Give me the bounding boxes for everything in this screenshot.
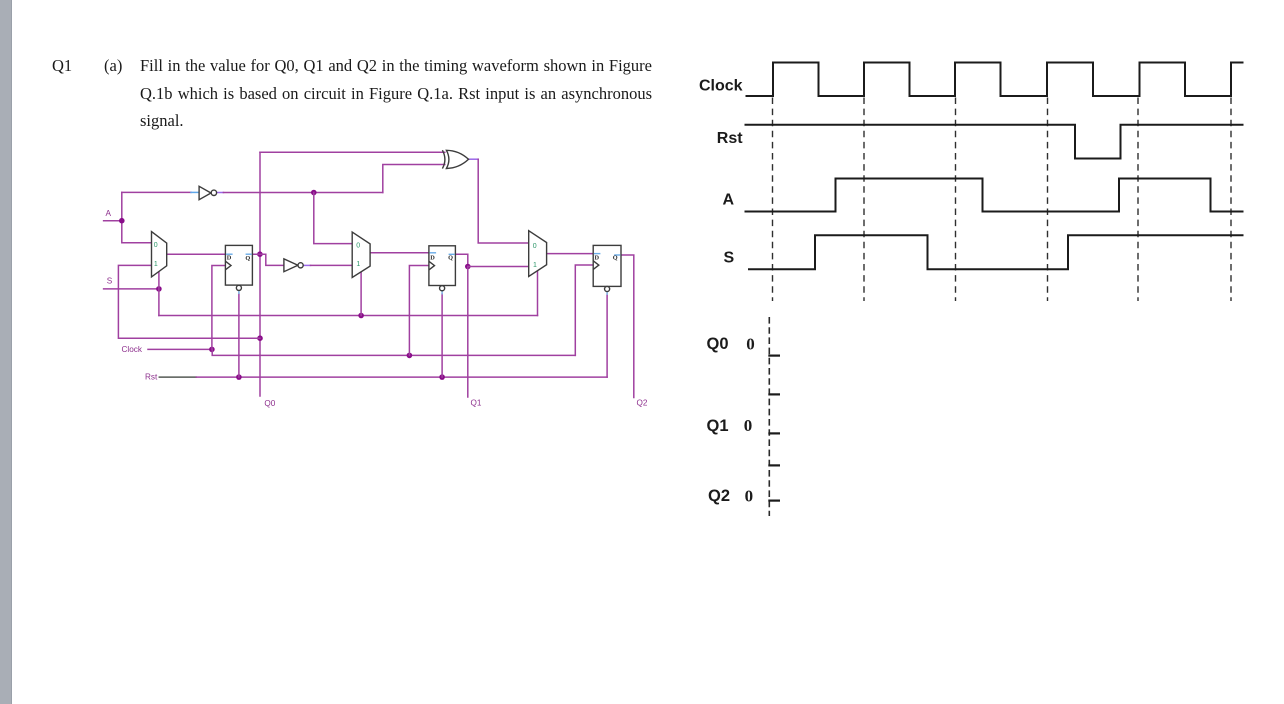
- svg-text:Clock: Clock: [699, 77, 743, 94]
- wire: Rst riser to DFF3 R: [606, 294, 608, 377]
- wire: input S stub: [104, 288, 159, 290]
- svg-text:D: D: [227, 255, 232, 262]
- svg-text:Q: Q: [448, 255, 453, 262]
- wire: XOR output down to mux3 input0: [478, 159, 529, 243]
- wire: blue highlighted segment at U4 input: [191, 191, 199, 193]
- wire: blue tick below DFF2 reset bubble: [441, 291, 443, 294]
- wire: DFF1 Q to inverter U5: [252, 254, 284, 265]
- wire: mux3 output to DFF3 D: [547, 253, 594, 255]
- svg-text:Q2: Q2: [637, 399, 648, 408]
- svg-text:0: 0: [154, 242, 158, 249]
- wire: mux2 output to DFF2 D: [370, 252, 429, 254]
- svg-text:Q: Q: [245, 255, 250, 262]
- svg-text:S: S: [107, 277, 113, 286]
- flip-flop U7 body: [225, 245, 252, 285]
- svg-text:A: A: [106, 209, 112, 218]
- inverter U4: [199, 186, 211, 199]
- mux U1: [152, 232, 167, 277]
- wire: Q0 net long vertical: [259, 152, 261, 396]
- timing grid: dashed line t3: [955, 98, 957, 302]
- node: S junction: [156, 286, 162, 292]
- wire: Q1 vertical to output label: [467, 267, 469, 398]
- svg-text:Rst: Rst: [145, 372, 158, 381]
- paragraph line 2: [140, 84, 652, 104]
- wire: inverter U4 output violet segment: [217, 192, 224, 194]
- wire: mux1 output to DFF1 D: [167, 253, 226, 255]
- wire: Rst distribution run: [196, 376, 607, 378]
- timing grid: dashed line t5: [1137, 98, 1139, 302]
- question number Q1: [52, 56, 72, 76]
- signal: A waveform: [746, 179, 1243, 212]
- wire: U5 output to mux2 input1: [311, 264, 353, 266]
- left gray sidebar: [0, 0, 12, 704]
- node: A junction: [119, 218, 125, 224]
- answer grid: lower dashed line at t1: [768, 317, 770, 516]
- wire: inverter U5 output violet segment: [303, 264, 310, 266]
- node: Q0 at DFF1 output: [257, 251, 263, 257]
- svg-text:Q2: Q2: [708, 487, 730, 505]
- node: Q0 at feedback tap: [257, 335, 263, 341]
- part label (a): [104, 56, 122, 76]
- svg-text:S: S: [724, 249, 735, 266]
- svg-text:Q0: Q0: [707, 335, 729, 353]
- flip-flop U8 body: [429, 246, 456, 286]
- node: Clock at DFF2 riser: [407, 353, 413, 359]
- wire: clock riser to DFF1 CK: [212, 266, 226, 350]
- answer tick: Q1 low level: [768, 432, 780, 434]
- answer tick: Q0 low level: [768, 355, 780, 357]
- node: Rst at DFF1 riser: [236, 374, 242, 380]
- node: Q1 junction: [465, 264, 471, 270]
- wire: A to inverter U4 input: [122, 191, 191, 193]
- wire: Rst label stub (dark): [159, 376, 196, 378]
- wire: mux2 select vertical: [360, 272, 362, 316]
- wire: Q1 to mux3 input1: [468, 266, 529, 268]
- mux U3: [529, 231, 547, 277]
- answer tick: Q0/Q1 boundary: [768, 393, 780, 395]
- svg-text:Q: Q: [613, 255, 618, 262]
- svg-text:D: D: [595, 254, 600, 261]
- svg-text:1: 1: [154, 261, 158, 268]
- svg-text:0: 0: [745, 486, 754, 505]
- svg-text:Q0: Q0: [264, 399, 275, 408]
- wire: blue tick below DFF3 reset bubble: [606, 292, 608, 295]
- pin stub: DFF3 D internal: [594, 253, 601, 255]
- pin stub: DFF2 D internal: [430, 252, 437, 254]
- wire: Q0 feedback to mux1 input1: [118, 265, 260, 338]
- node: Rst at DFF2 riser: [439, 374, 445, 380]
- svg-text:Q1: Q1: [471, 399, 482, 408]
- pin stub: DFF3 Q internal: [614, 254, 620, 256]
- svg-text:0: 0: [746, 334, 755, 353]
- wire: clock jog and distribution run: [212, 349, 575, 355]
- timing grid: dashed line t6: [1230, 98, 1232, 302]
- svg-text:0: 0: [356, 242, 360, 249]
- wire: DFF2 Q to node Q1: [455, 254, 467, 266]
- xor gate U6: [442, 150, 445, 168]
- wire: Rst riser to DFF2 R: [441, 294, 443, 377]
- node: Clock at DFF1 riser: [209, 347, 215, 353]
- svg-text:0: 0: [533, 243, 537, 250]
- wire: mux3 select vertical: [537, 271, 539, 316]
- svg-text:Rst: Rst: [717, 130, 743, 147]
- wire: A net vertical + branch to mux1 input0: [122, 192, 152, 242]
- mux U2: [352, 232, 370, 277]
- inverter U5: [284, 259, 298, 272]
- svg-text:Clock: Clock: [122, 345, 143, 354]
- wire: Q0 net top run to XOR input1: [260, 151, 445, 153]
- node: select to mux2: [358, 313, 364, 319]
- signal: S waveform: [749, 235, 1243, 269]
- wire: input A stub: [104, 220, 122, 222]
- svg-text:1: 1: [356, 261, 360, 268]
- flip-flop U9 body: [593, 245, 621, 286]
- paragraph line 3: [140, 111, 652, 131]
- wire: clock riser to DFF3 CK: [575, 265, 593, 355]
- svg-text:A: A: [723, 191, 735, 208]
- wire: DFF3 Q to Q2 vertical: [621, 255, 634, 398]
- pin stub: DFF1 D internal: [226, 253, 233, 255]
- wire: riser to XOR input2: [383, 165, 445, 193]
- pin stub: DFF1 Q internal: [246, 253, 252, 255]
- wire: Rst riser to DFF1 R: [238, 293, 240, 377]
- signal: Rst waveform: [746, 125, 1243, 159]
- svg-text:1: 1: [533, 262, 537, 269]
- svg-text:D: D: [430, 254, 435, 261]
- timing grid: dashed line t2: [863, 98, 865, 302]
- wire: blue tick below DFF1 reset bubble: [238, 291, 240, 294]
- wire: clock riser to DFF2 CK: [409, 266, 429, 356]
- timing grid: dashed line t4: [1047, 98, 1049, 302]
- wire: branch down to mux2 input0: [314, 193, 352, 244]
- svg-text:0: 0: [744, 416, 753, 435]
- pin stub: DFF2 Q internal: [449, 253, 455, 255]
- wire: XOR output violet segment: [469, 158, 479, 160]
- timing grid: dashed line t1: [772, 98, 774, 302]
- wire: NOT-A net to mux2 area: [223, 192, 382, 194]
- paragraph line 1: [140, 56, 652, 76]
- wire: Clock label stub: [148, 348, 212, 350]
- node: NOT-A junction to mux2: [311, 190, 317, 196]
- svg-text:Q1: Q1: [707, 417, 729, 435]
- wire: select net distribution run: [159, 315, 538, 317]
- signal: Clock waveform: [747, 63, 1243, 97]
- wire: mux1 select vertical: [158, 272, 160, 316]
- answer tick: Q1/Q2 boundary: [768, 464, 780, 466]
- answer tick: Q2 low level: [768, 500, 780, 502]
